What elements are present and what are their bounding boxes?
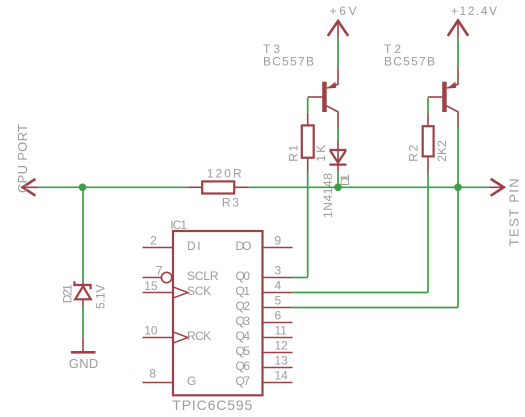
- svg-text:9: 9: [275, 234, 282, 248]
- svg-text:10: 10: [144, 324, 158, 338]
- svg-text:15: 15: [144, 279, 158, 293]
- svg-text:14: 14: [275, 369, 289, 383]
- svg-text:Q3: Q3: [236, 314, 251, 328]
- svg-text:BC557B: BC557B: [263, 54, 314, 68]
- svg-text:5: 5: [275, 294, 282, 308]
- svg-text:TEST PIN: TEST PIN: [506, 178, 521, 246]
- svg-text:DI: DI: [187, 239, 201, 253]
- svg-text:D1: D1: [338, 174, 352, 186]
- svg-text:RCK: RCK: [187, 329, 211, 343]
- svg-text:4: 4: [275, 279, 282, 293]
- svg-text:CPU PORT: CPU PORT: [15, 124, 30, 193]
- svg-text:SCK: SCK: [187, 284, 211, 298]
- svg-text:TPIC6C595: TPIC6C595: [172, 397, 252, 413]
- svg-text:Q1: Q1: [236, 284, 251, 298]
- svg-text:Q4: Q4: [236, 329, 251, 343]
- svg-text:8: 8: [149, 366, 156, 380]
- svg-text:Q7: Q7: [236, 374, 251, 388]
- svg-text:GND: GND: [69, 356, 99, 371]
- svg-text:DO: DO: [236, 239, 252, 253]
- svg-text:Q5: Q5: [236, 344, 251, 358]
- svg-text:+12.4V: +12.4V: [451, 4, 497, 18]
- svg-text:Q6: Q6: [236, 359, 251, 373]
- svg-text:D21: D21: [61, 284, 75, 303]
- svg-text:1N4148: 1N4148: [321, 173, 335, 218]
- svg-text:BC557B: BC557B: [384, 54, 435, 68]
- svg-text:13: 13: [275, 354, 289, 368]
- svg-text:6: 6: [275, 309, 282, 323]
- svg-text:5.1V: 5.1V: [94, 285, 108, 310]
- svg-text:IC1: IC1: [170, 218, 187, 232]
- svg-text:1K: 1K: [314, 145, 328, 162]
- svg-text:+6V: +6V: [330, 4, 357, 18]
- svg-text:R2: R2: [406, 144, 420, 161]
- svg-text:7: 7: [156, 264, 163, 278]
- svg-text:12: 12: [275, 339, 289, 353]
- svg-text:3: 3: [275, 264, 282, 278]
- svg-text:R3: R3: [222, 195, 239, 209]
- svg-text:Q0: Q0: [236, 269, 251, 283]
- svg-text:R1: R1: [287, 144, 301, 161]
- svg-text:120R: 120R: [207, 166, 242, 180]
- svg-text:2K2: 2K2: [435, 140, 449, 162]
- svg-text:SCLR: SCLR: [187, 269, 219, 283]
- svg-text:2: 2: [150, 234, 157, 248]
- svg-text:11: 11: [275, 324, 288, 338]
- svg-text:G: G: [187, 374, 196, 388]
- svg-text:Q2: Q2: [236, 299, 251, 313]
